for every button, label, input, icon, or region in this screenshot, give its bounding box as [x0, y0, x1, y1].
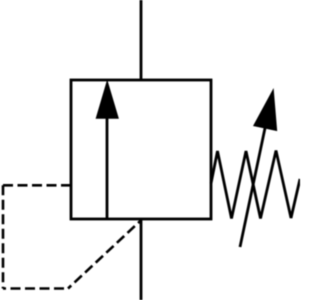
- wire bottom port line: [140, 219, 143, 300]
- adjustment arrow shaft: [240, 121, 267, 247]
- pilot line (dashed) vertical at left edge: [2, 185, 5, 288]
- pilot line (dashed) horizontal from valve left edge: [3, 184, 71, 187]
- pilot line (dashed) bottom horizontal: [3, 287, 68, 290]
- flow-path arrow shaft inside valve: [106, 116, 109, 219]
- wire top port line: [140, 0, 143, 80]
- spring (adjustable) zigzag: [211, 151, 300, 219]
- adjustment arrowhead: [253, 88, 277, 131]
- flow-path arrowhead: [96, 79, 119, 118]
- pilot line (dashed) diagonal to drain junction: [68, 220, 141, 288]
- valve body V1 (square envelope): [71, 80, 211, 219]
